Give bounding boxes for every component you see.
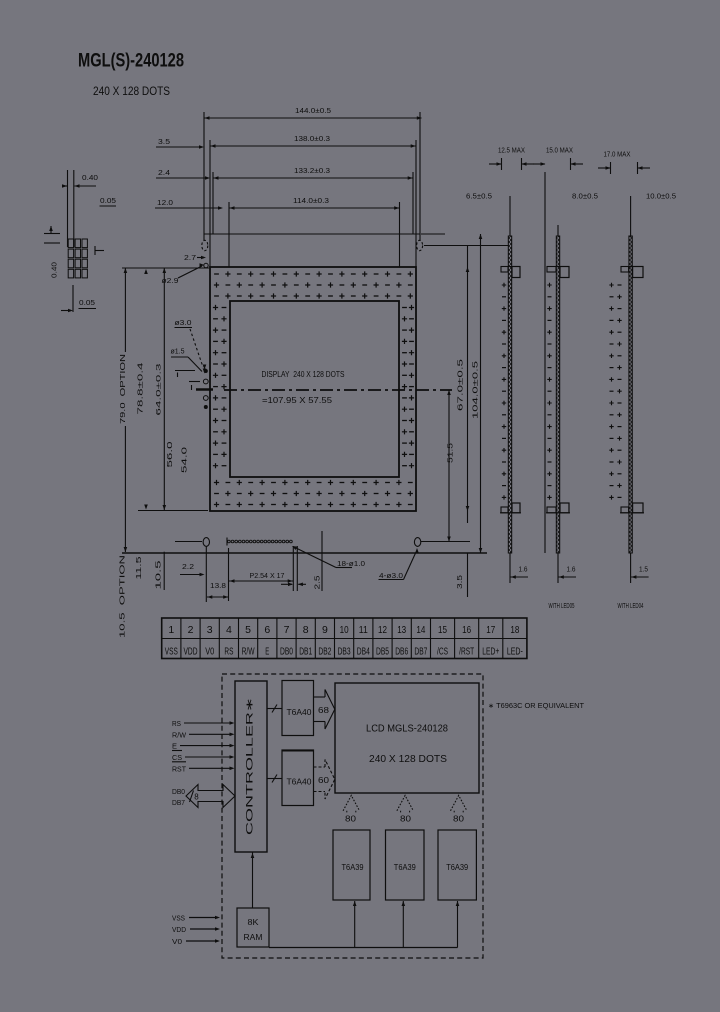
svg-text:LED-: LED- [507, 647, 523, 658]
svg-text:80: 80 [345, 814, 356, 824]
pcb bottom line [122, 552, 487, 554]
svg-text:WITH LED05: WITH LED05 [549, 603, 575, 610]
svg-text:67.0±0.5: 67.0±0.5 [458, 359, 465, 411]
svg-text:T6A40: T6A40 [287, 708, 313, 717]
svg-text:1.6: 1.6 [519, 565, 528, 574]
svg-text:60: 60 [318, 775, 329, 785]
pin row 18 circles [228, 540, 231, 543]
pin mark dot lower [204, 405, 208, 409]
dim 114.0±0.3 line [229, 207, 400, 209]
svg-text:2.5: 2.5 [313, 576, 322, 590]
svg-text:CS: CS [172, 753, 182, 762]
svg-text:T6A39: T6A39 [394, 862, 416, 872]
svg-text:6: 6 [264, 624, 270, 636]
projection line to side view [424, 245, 508, 247]
svg-text:3.5: 3.5 [158, 137, 170, 146]
svg-text:15.0 MAX: 15.0 MAX [546, 146, 573, 155]
side view C (10.0, LED04) [629, 236, 632, 553]
svg-text:56.0: 56.0 [167, 441, 174, 467]
ext line pin1 [228, 548, 230, 601]
RAM box [237, 908, 269, 947]
left centerline tick [196, 388, 213, 390]
driver box T6A40 upper [282, 681, 314, 736]
pcb top edge right stub [421, 233, 445, 235]
svg-text:1.6: 1.6 [567, 565, 576, 574]
svg-text:80: 80 [400, 814, 411, 824]
bezel bottom extension [138, 510, 208, 512]
svg-text:/RST: /RST [459, 647, 474, 658]
hole centerline left [175, 541, 202, 543]
dim 51.5 [448, 390, 450, 542]
svg-text:79.0 OPTION: 79.0 OPTION [120, 354, 127, 424]
svg-text:DB5: DB5 [376, 647, 389, 658]
dim 79.0 OPTION [124, 268, 126, 352]
bus arrow 60 [314, 766, 326, 768]
svg-text:17: 17 [486, 624, 495, 636]
svg-text:10.0±0.5: 10.0±0.5 [646, 192, 676, 201]
svg-text:RST: RST [172, 764, 186, 773]
ext line x164 [163, 552, 165, 590]
svg-text:16: 16 [462, 624, 471, 636]
svg-text:0.05: 0.05 [79, 298, 95, 307]
pcb top edge [204, 233, 420, 235]
svg-text:T6A39: T6A39 [342, 862, 364, 872]
svg-text:E: E [172, 742, 177, 751]
svg-text:12: 12 [378, 624, 387, 636]
dim 64.0±0.3 [163, 268, 165, 510]
svg-text:CONTROLLER∗: CONTROLLER∗ [245, 697, 256, 835]
svg-text:VSS: VSS [172, 914, 185, 923]
svg-text:0.40: 0.40 [50, 262, 59, 278]
svg-text:11.5: 11.5 [136, 556, 143, 579]
svg-text:LED+: LED+ [482, 647, 499, 658]
extension lines top-left [203, 112, 205, 240]
data bus arrow [186, 785, 235, 808]
svg-text:DB0: DB0 [172, 787, 185, 796]
svg-text:∗ T6963C OR EQUIVALENT: ∗ T6963C OR EQUIVALENT [488, 701, 585, 710]
svg-text:/CS: /CS [437, 647, 448, 658]
svg-text:2.2: 2.2 [182, 562, 194, 571]
display centerline [224, 389, 452, 391]
svg-text:12.0: 12.0 [157, 198, 173, 207]
svg-text:240 X 128 DOTS: 240 X 128 DOTS [93, 84, 170, 98]
svg-text:RS: RS [224, 647, 233, 658]
ext line hole left [205, 546, 207, 602]
svg-text:VDD: VDD [172, 925, 187, 934]
svg-text:WITH LED04: WITH LED04 [618, 603, 644, 610]
bezel outline [210, 267, 416, 511]
wire bus to T6A39 left [354, 901, 356, 948]
svg-text:78.8±0.4: 78.8±0.4 [138, 362, 145, 414]
svg-text:DB7: DB7 [172, 798, 185, 807]
dot detail grid [68, 239, 73, 248]
svg-text:RAM: RAM [244, 932, 263, 942]
bus arrow 68 [314, 696, 326, 698]
svg-text:14: 14 [416, 624, 425, 636]
side view A (6.5) [508, 236, 511, 553]
svg-text:ø3.0: ø3.0 [175, 318, 192, 327]
svg-text:2.4: 2.4 [158, 168, 170, 177]
pin mark circle [203, 379, 208, 384]
svg-text:6.5±0.5: 6.5±0.5 [466, 192, 492, 201]
svg-text:V0: V0 [205, 647, 214, 658]
dim 133.2±0.3 line [213, 177, 413, 179]
corner hole bottom-right [414, 538, 420, 547]
svg-text:DB1: DB1 [299, 647, 312, 658]
svg-text:2: 2 [188, 624, 194, 636]
svg-text:VSS: VSS [165, 647, 178, 658]
svg-text:11: 11 [359, 624, 368, 636]
display window outline [230, 301, 399, 477]
block diagram dashed border [222, 674, 483, 958]
controller stub lower [267, 778, 282, 780]
svg-text:18-ø1.0: 18-ø1.0 [337, 559, 365, 568]
svg-text:8.0±0.5: 8.0±0.5 [572, 192, 598, 201]
svg-text:138.0±0.3: 138.0±0.3 [294, 134, 330, 143]
ext line x545 [544, 172, 546, 553]
driver box T6A40 lower [282, 750, 314, 806]
driver box T6A39 middle [386, 830, 425, 900]
svg-text:51.5: 51.5 [446, 443, 455, 463]
controller stub upper [267, 708, 282, 710]
dim 144.0±0.5 line [204, 117, 422, 119]
svg-text:LCD MGLS-240128: LCD MGLS-240128 [366, 723, 448, 735]
svg-text:T6A40: T6A40 [287, 778, 313, 787]
svg-text:9: 9 [322, 624, 328, 636]
svg-text:10.5 OPTION: 10.5 OPTION [120, 555, 127, 638]
svg-text:DB4: DB4 [357, 647, 370, 658]
svg-text:V0: V0 [172, 937, 182, 946]
svg-text:=107.95 X 57.55: =107.95 X 57.55 [262, 396, 333, 405]
svg-text:4: 4 [226, 624, 232, 636]
arrow 80 left [343, 795, 359, 810]
svg-text:104.0±0.5: 104.0±0.5 [473, 361, 480, 419]
bezel hatch marks [214, 273, 219, 275]
svg-text:0.40: 0.40 [82, 173, 98, 182]
ext pin18 [296, 546, 298, 591]
svg-text:DISPLAY 240 X 128 DOTS: DISPLAY 240 X 128 DOTS [262, 370, 345, 379]
ext x322 [321, 531, 323, 591]
svg-text:DB6: DB6 [395, 647, 408, 658]
svg-text:13.8: 13.8 [210, 581, 226, 590]
controller box [235, 681, 267, 852]
pin mark dot upper [204, 369, 208, 373]
corner hole top-left dashed [202, 240, 208, 250]
svg-text:54.0: 54.0 [181, 447, 188, 473]
corner hole bottom-left [203, 538, 209, 547]
wire bus to T6A39 right [457, 901, 459, 948]
svg-text:8K: 8K [248, 917, 259, 927]
corner hole top-right dashed [417, 240, 423, 250]
svg-text:4-ø3.0: 4-ø3.0 [379, 571, 403, 580]
svg-text:ø1.5: ø1.5 [171, 346, 185, 355]
svg-text:13: 13 [397, 624, 406, 636]
svg-text:17.0 MAX: 17.0 MAX [604, 150, 631, 159]
svg-text:T6A39: T6A39 [446, 862, 468, 872]
svg-text:E: E [265, 647, 269, 658]
svg-text:144.0±0.5: 144.0±0.5 [295, 106, 331, 115]
dim 78.8±0.4 [144, 269, 148, 274]
svg-text:MGL(S)-240128: MGL(S)-240128 [78, 50, 184, 72]
LCD box [335, 683, 479, 793]
svg-text:133.2±0.3: 133.2±0.3 [294, 166, 330, 175]
svg-text:1.5: 1.5 [639, 565, 648, 574]
wire controller to RAM [252, 852, 254, 908]
svg-text:2.7: 2.7 [184, 253, 196, 262]
svg-text:68: 68 [318, 705, 329, 715]
svg-text:240 X 128 DOTS: 240 X 128 DOTS [369, 753, 447, 765]
svg-text:3.5: 3.5 [455, 575, 464, 589]
wire bus to T6A39 middle [402, 901, 404, 948]
ext x467 below [467, 553, 469, 597]
svg-text:R/W: R/W [242, 647, 255, 658]
svg-text:8: 8 [303, 624, 309, 636]
driver box T6A39 left [333, 830, 370, 900]
svg-text:DB0: DB0 [280, 647, 293, 658]
dim 138.0±0.3 line [210, 145, 416, 147]
pin mark circle2 [203, 396, 208, 401]
svg-text:RS: RS [172, 719, 181, 728]
svg-text:114.0±0.3: 114.0±0.3 [293, 196, 329, 205]
side view B (8.0, LED05) [556, 236, 559, 553]
svg-text:64.0±0.3: 64.0±0.3 [156, 363, 163, 415]
bottom bus wire [269, 947, 458, 949]
dim 67.0±0.5 [467, 246, 469, 523]
arrow 80 right [451, 795, 467, 810]
svg-text:7: 7 [284, 624, 290, 636]
svg-text:P2.54 X 17: P2.54 X 17 [250, 571, 285, 580]
pin assignment table [162, 618, 527, 659]
svg-text:10: 10 [340, 624, 349, 636]
svg-text:15: 15 [438, 624, 447, 636]
svg-text:0.05: 0.05 [100, 196, 116, 205]
svg-text:DB2: DB2 [318, 647, 331, 658]
svg-text:R/W: R/W [172, 730, 187, 739]
svg-text:5: 5 [245, 624, 251, 636]
svg-text:10.5: 10.5 [156, 560, 163, 589]
pin row tick [226, 538, 228, 546]
svg-text:VDD: VDD [184, 647, 198, 658]
svg-text:DB7: DB7 [414, 647, 427, 658]
svg-text:80: 80 [453, 814, 464, 824]
driver box T6A39 right [438, 830, 476, 900]
hole centerline right [421, 541, 470, 543]
svg-text:1: 1 [168, 624, 174, 636]
arrow 80 middle [397, 795, 413, 810]
bezel top extension [122, 267, 209, 269]
dim 104.0±0.5 [480, 234, 482, 553]
svg-text:DB3: DB3 [338, 647, 351, 658]
svg-text:3: 3 [207, 624, 213, 636]
dot detail left ticks [44, 233, 60, 235]
ext pin17 [292, 546, 294, 591]
extension lines top-right [419, 112, 421, 240]
svg-text:8: 8 [194, 793, 199, 802]
svg-text:12.5 MAX: 12.5 MAX [498, 146, 525, 155]
svg-text:18: 18 [510, 624, 519, 636]
